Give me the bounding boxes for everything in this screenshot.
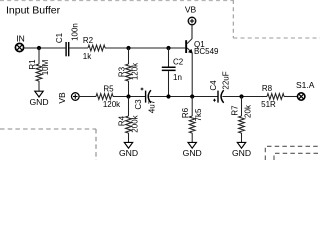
- wire R7 to ground: [241, 133, 243, 142]
- svg-text:R3: R3: [118, 66, 127, 77]
- wire R4 to ground: [128, 133, 130, 142]
- svg-text:51R: 51R: [261, 100, 276, 109]
- svg-text:GND: GND: [29, 97, 48, 107]
- wire R7 top lead: [241, 97, 243, 117]
- wire R6 top lead: [191, 97, 193, 117]
- wire VB to R5: [79, 96, 96, 98]
- dashed region boundary bottom-left horizontal: [0, 128, 96, 130]
- node G junction dot (R7 top): [239, 94, 243, 98]
- wire C2 bottom lead: [168, 71, 170, 96]
- svg-text:200k: 200k: [131, 114, 140, 132]
- ground symbol R1: [35, 91, 43, 97]
- svg-text:100n: 100n: [71, 23, 80, 41]
- dashed region boundary top-right horizontal: [233, 37, 320, 39]
- svg-text:R5: R5: [103, 85, 114, 94]
- wire R2 to base node: [105, 47, 185, 49]
- svg-text:S1.A: S1.A: [296, 80, 315, 90]
- transistor Q1 base bar: [185, 40, 187, 53]
- svg-text:GND: GND: [232, 148, 251, 158]
- svg-text:R1: R1: [28, 59, 37, 70]
- svg-text:120k: 120k: [131, 62, 140, 80]
- svg-text:R6: R6: [181, 107, 190, 118]
- node C junction dot (C2 top): [166, 46, 170, 50]
- wire R1 to ground: [38, 81, 40, 91]
- svg-text:120k: 120k: [103, 100, 121, 109]
- wire C4 to R8: [222, 96, 267, 98]
- svg-text:1k: 1k: [83, 52, 92, 61]
- capacitor C1: [65, 42, 69, 56]
- resistor R3: [126, 64, 132, 81]
- wire R6 to ground: [191, 133, 193, 142]
- svg-text:R4: R4: [118, 115, 127, 126]
- dashed region boundary top: [0, 0, 233, 2]
- svg-text:R7: R7: [231, 105, 240, 116]
- resistor R8: [267, 94, 284, 100]
- resistor R2: [88, 45, 105, 51]
- capacitor C3 plus sign: [141, 88, 144, 91]
- wire R5 to node D: [113, 96, 145, 98]
- svg-text:1n: 1n: [173, 73, 182, 82]
- capacitor C4 plus sign: [213, 99, 216, 102]
- wire emitter down: [191, 53, 193, 97]
- svg-text:VB: VB: [57, 92, 67, 104]
- capacitor C4 straight plate: [217, 91, 218, 103]
- capacitor C2: [162, 67, 176, 72]
- svg-text:IN: IN: [16, 33, 25, 43]
- dashed region boundary bottom-left vertical: [95, 129, 97, 160]
- terminal S1.A: [298, 93, 305, 100]
- svg-text:22uF: 22uF: [221, 71, 230, 89]
- wire C3 to node E: [150, 96, 218, 98]
- svg-text:VB: VB: [185, 4, 197, 14]
- resistor R5: [96, 94, 113, 100]
- resistor R6: [189, 116, 195, 133]
- svg-text:20k: 20k: [244, 104, 253, 118]
- capacitor C3 curved plate: [148, 90, 151, 103]
- wire R3 bottom lead: [128, 81, 130, 97]
- wire R3 top lead: [128, 48, 130, 64]
- power supply VB (bottom left): [72, 93, 80, 101]
- ground symbol R6: [188, 142, 196, 148]
- wire IN to junction A: [24, 47, 39, 49]
- svg-text:C3: C3: [134, 99, 143, 110]
- resistor R7: [239, 116, 245, 133]
- node B junction dot (R3 top): [126, 46, 130, 50]
- svg-text:C4: C4: [209, 80, 218, 91]
- node A junction dot: [37, 46, 41, 50]
- svg-text:4u7: 4u7: [148, 99, 157, 113]
- svg-text:BC549: BC549: [194, 47, 219, 56]
- svg-text:10M: 10M: [41, 59, 50, 75]
- capacitor C4 curved plate: [221, 90, 224, 103]
- svg-text:R8: R8: [262, 84, 273, 93]
- wire C2 top lead: [168, 48, 170, 67]
- dashed region boundary top-right vertical: [232, 0, 234, 38]
- dashed region boundary bottom-right inner corner: [274, 153, 320, 160]
- transistor Q1 emitter: [187, 48, 192, 53]
- ground symbol R7: [237, 142, 245, 148]
- node D junction dot (bias node): [126, 94, 130, 98]
- svg-text:7k5: 7k5: [194, 108, 203, 121]
- wire junction A to C1: [39, 47, 65, 49]
- wire R8 to S1.A: [284, 96, 298, 98]
- wire junction A down to R1: [38, 48, 40, 64]
- wire C1 to R2: [69, 47, 88, 49]
- wire VB to collector: [191, 25, 193, 39]
- svg-text:R2: R2: [83, 36, 94, 45]
- svg-text:C2: C2: [173, 58, 184, 67]
- svg-text:GND: GND: [119, 148, 138, 158]
- ground symbol R4: [124, 142, 132, 148]
- wire R4 top lead: [128, 97, 130, 117]
- transistor Q1 emitter arrow: [188, 49, 192, 53]
- power supply VB (top): [188, 17, 196, 25]
- capacitor C3 straight plate: [145, 91, 146, 103]
- resistor R4: [126, 116, 132, 133]
- node E junction dot (C2 bottom): [166, 94, 170, 98]
- terminal IN: [15, 43, 23, 51]
- node F junction dot (emitter): [190, 94, 194, 98]
- transistor Q1 collector: [187, 25, 192, 44]
- resistor R1: [36, 64, 42, 81]
- svg-text:C1: C1: [55, 32, 64, 43]
- svg-text:Input Buffer: Input Buffer: [6, 5, 61, 17]
- svg-text:GND: GND: [183, 148, 202, 158]
- dashed region boundary bottom-right outer corner: [265, 146, 320, 160]
